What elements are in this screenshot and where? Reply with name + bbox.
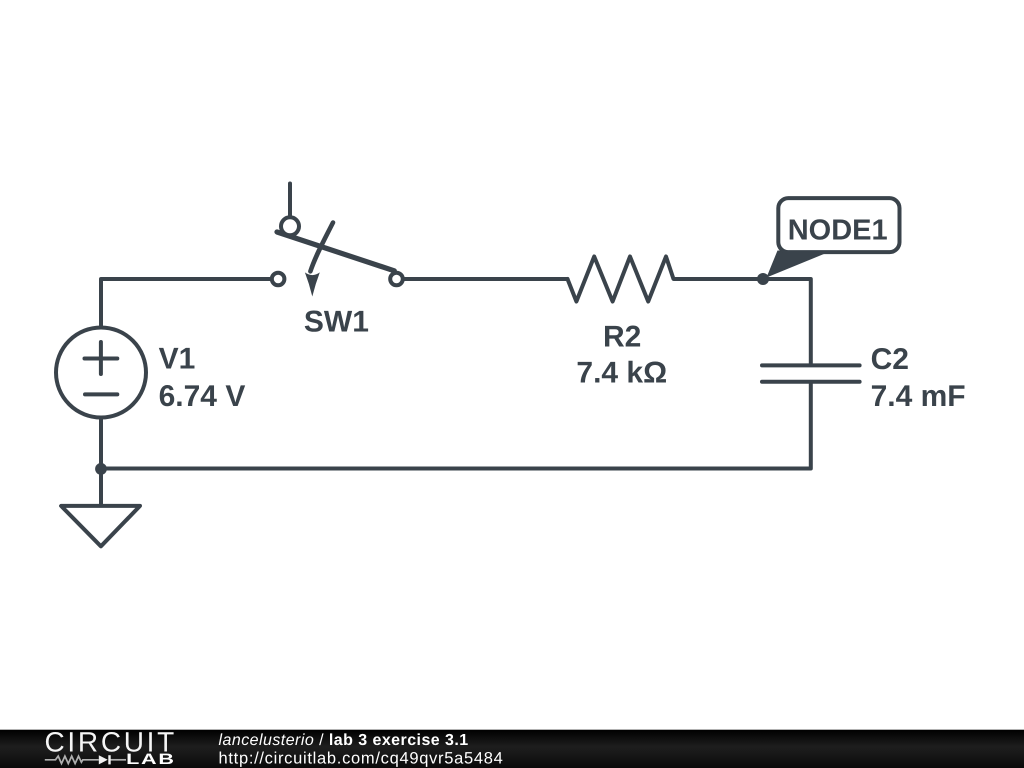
- svg-text:C2: C2: [871, 343, 909, 376]
- svg-text:7.4 kΩ: 7.4 kΩ: [576, 357, 667, 390]
- svg-text:LAB: LAB: [126, 751, 176, 768]
- svg-text:V1: V1: [159, 342, 196, 375]
- svg-text:SW1: SW1: [304, 306, 369, 339]
- svg-text:http://circuitlab.com/cq49qvr5: http://circuitlab.com/cq49qvr5a5484: [219, 749, 504, 767]
- svg-text:6.74 V: 6.74 V: [159, 380, 246, 413]
- svg-text:7.4 mF: 7.4 mF: [871, 380, 966, 413]
- svg-text:lancelusterio / lab 3 exercise: lancelusterio / lab 3 exercise 3.1: [219, 732, 469, 749]
- svg-text:R2: R2: [603, 320, 641, 353]
- svg-text:NODE1: NODE1: [788, 214, 888, 246]
